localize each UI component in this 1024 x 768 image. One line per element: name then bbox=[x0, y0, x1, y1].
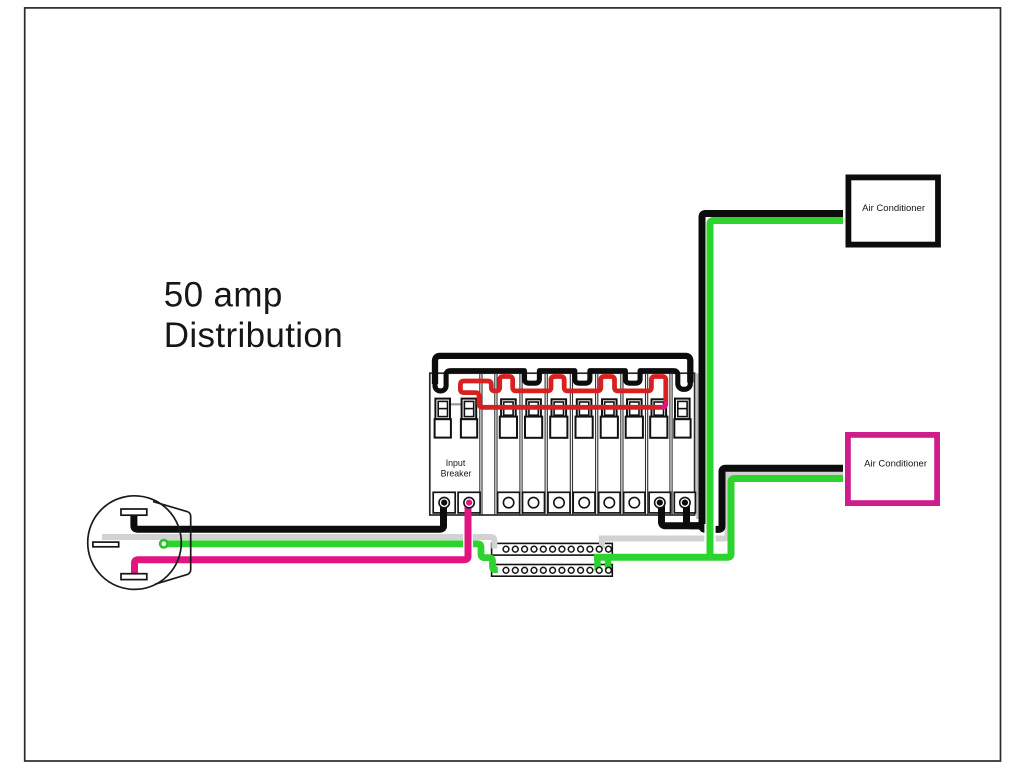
svg-text:50 amp: 50 amp bbox=[164, 275, 283, 314]
clip module 10 bbox=[674, 399, 690, 438]
plug P1 body circle (50A shore plug) bbox=[88, 496, 182, 590]
clip module 6 bbox=[576, 399, 593, 438]
terminal block T9 bbox=[649, 492, 670, 513]
plug P1 ground pin node bbox=[160, 540, 167, 547]
clip module 7 bbox=[601, 399, 618, 438]
clip module 3 bbox=[500, 399, 517, 438]
junction halo: green riser crossing black and gray wires bbox=[704, 524, 715, 544]
wire: green from ground bus bar to air conditioner U2 bbox=[594, 479, 843, 558]
input breaker bridge bbox=[450, 403, 464, 405]
breaker clips (10 modules) bbox=[435, 399, 691, 438]
node: hot wire at terminal T1 bbox=[441, 500, 447, 506]
node: magenta tip at end of red bus bbox=[661, 401, 666, 408]
clip module 8 bbox=[626, 399, 643, 438]
terminal block T6 bbox=[573, 492, 595, 513]
plug P1 hot prong (top) bbox=[121, 509, 147, 515]
terminal block T3 bbox=[498, 492, 520, 513]
clip module 1 bbox=[435, 399, 451, 438]
wire: black riser, junction to air conditioner U1 and U2 bbox=[702, 214, 843, 530]
plug P1 neutral prong (left) bbox=[93, 542, 119, 547]
terminal block T4 bbox=[523, 492, 545, 513]
wire: black from terminal T10 to junction bbox=[687, 503, 703, 526]
screw terminal ring T6 bbox=[579, 497, 589, 507]
wire: green stubs into ground bus bar bbox=[598, 557, 609, 570]
screw terminal ring T8 bbox=[629, 497, 639, 507]
wire: red breaker interconnect bus bbox=[460, 377, 665, 408]
terminal block T1 (input breaker pole 1) bbox=[433, 492, 455, 513]
air conditioner U1 box bbox=[848, 177, 938, 244]
wire: green plug pin to ground bus bar bbox=[164, 544, 498, 570]
air conditioner U2 box bbox=[848, 435, 937, 503]
clip module 9 bbox=[650, 399, 667, 438]
node: black wire at terminal T10 bbox=[682, 500, 688, 506]
clip module 4 bbox=[525, 399, 542, 438]
wire: magenta plug bottom prong to terminal T2 bbox=[135, 503, 469, 576]
screw terminal ring T7 bbox=[604, 497, 614, 507]
wire: neutral (gray) plug to neutral bus bar bbox=[102, 537, 494, 549]
wire: black panel hot bus outer staple bbox=[435, 356, 690, 384]
screw terminal ring T4 bbox=[528, 497, 538, 507]
wire: hot (black) plug top prong to terminal T1 bbox=[134, 503, 444, 529]
screw terminal ring T9 bbox=[655, 497, 665, 507]
ground bus bar bbox=[492, 565, 613, 577]
terminal block T7 bbox=[599, 492, 620, 513]
panel right gray column bbox=[696, 374, 698, 520]
wire: black from terminal T9 to junction bbox=[662, 503, 701, 526]
terminal block T10 bbox=[674, 492, 695, 513]
terminal block T8 bbox=[624, 492, 645, 513]
wire: green riser to air conditioner U1 bbox=[710, 221, 843, 560]
ground bus bar screw holes bbox=[503, 567, 611, 573]
terminal block T2 (input breaker pole 2) bbox=[458, 492, 480, 513]
screw terminal ring T3 bbox=[503, 497, 513, 507]
neutral bus bar bbox=[492, 543, 613, 555]
wire: neutral (gray) neutral bus bar to air conditioner U2 bbox=[599, 473, 843, 549]
junction halo: magenta wire crossing gray and green wires bbox=[463, 532, 473, 549]
screw terminal ring T2 bbox=[464, 497, 474, 507]
screw terminal ring T10 bbox=[680, 497, 690, 507]
svg-text:Air Conditioner: Air Conditioner bbox=[864, 459, 927, 470]
label: Input Breaker bbox=[441, 458, 472, 478]
node: magenta wire at terminal T2 bbox=[466, 500, 472, 506]
breaker panel body bbox=[430, 373, 695, 515]
clip module 2 bbox=[461, 399, 477, 438]
screw terminal ring T1 bbox=[439, 497, 449, 507]
svg-text:Breaker: Breaker bbox=[441, 468, 472, 478]
title text "50 amp Distribution" bbox=[164, 275, 343, 354]
terminal block T5 bbox=[548, 492, 570, 513]
screw terminal ring T5 bbox=[554, 497, 564, 507]
wire: black panel hot bus (staple and weave) bbox=[435, 356, 690, 391]
svg-text:Input: Input bbox=[446, 458, 466, 468]
svg-text:Air Conditioner: Air Conditioner bbox=[862, 203, 925, 214]
clip module 5 bbox=[550, 399, 567, 438]
breaker module separator lines bbox=[480, 374, 672, 515]
node: black wire at terminal T9 bbox=[657, 500, 663, 506]
plug P1 face outline bbox=[153, 502, 191, 585]
plug P1 ground prong (bottom) bbox=[121, 574, 147, 580]
neutral bus bar screw holes bbox=[503, 546, 611, 552]
svg-text:Distribution: Distribution bbox=[164, 316, 343, 355]
